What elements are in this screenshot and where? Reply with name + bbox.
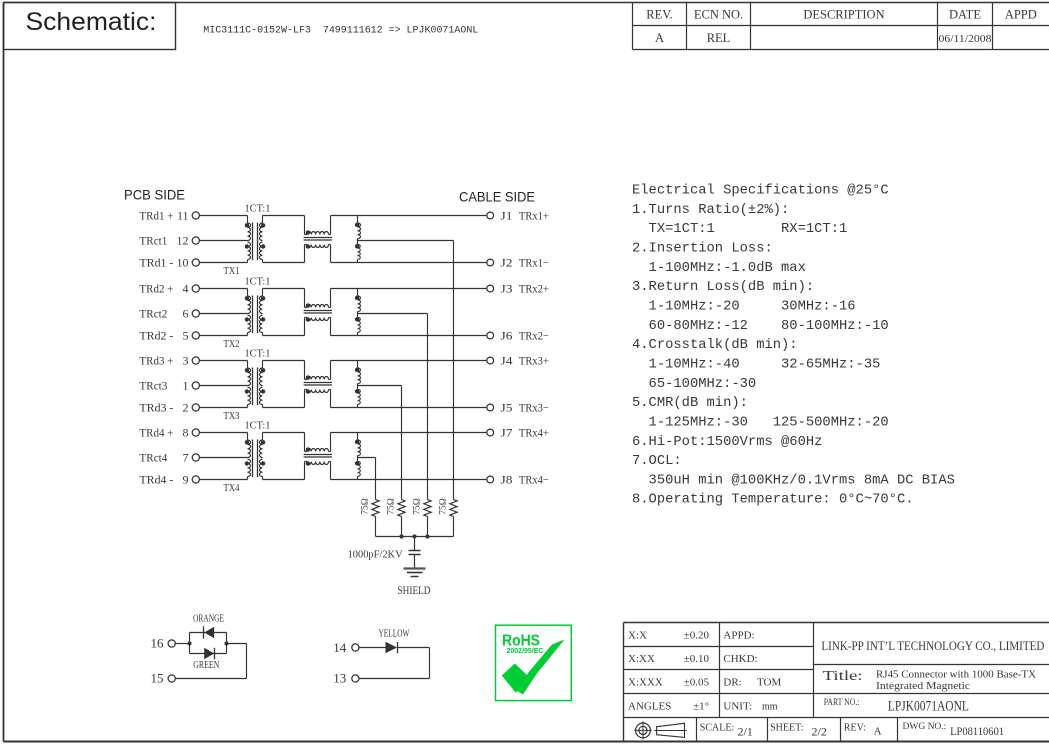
svg-text:TX1: TX1 [224,265,240,277]
svg-text:Title:: Title: [823,668,863,683]
resistor R4 75ohm [361,498,380,536]
svg-text:SHIELD: SHIELD [398,585,431,597]
wire pin 7 to TX4 [199,457,247,459]
svg-text:X:X: X:X [628,630,647,642]
wire center tap L1 to resistor R1 [358,241,454,500]
svg-text:Electrical Specifications @25°: Electrical Specifications @25°C [632,183,889,199]
svg-text:GREEN: GREEN [193,660,219,671]
svg-text:DR:: DR: [723,677,741,689]
cable-side tap winding L2 [355,289,361,336]
svg-text:±0.10: ±0.10 [684,653,710,665]
wire pin 12 to TX1 [199,240,247,242]
svg-text:2/2: 2/2 [812,725,827,739]
pin 3 TRd3+ [139,354,199,368]
pin 8 TRd4+ [139,426,199,440]
transformer TX3 [245,361,266,408]
svg-text:11: 11 [177,209,189,223]
svg-text:LINK-PP INT’L TECHNOLOGY CO.,: LINK-PP INT’L TECHNOLOGY CO., LIMITED [821,638,1044,653]
svg-text:TRd2 +: TRd2 + [139,282,173,296]
svg-text:A: A [655,31,664,45]
svg-text:TRx2+: TRx2+ [519,284,549,296]
svg-text:1-100MHz:-1.0dB max: 1-100MHz:-1.0dB max [632,260,806,276]
svg-text:3: 3 [183,354,189,368]
svg-text:06/11/2008: 06/11/2008 [939,33,993,45]
svg-text:7: 7 [183,451,189,465]
transformer TX4 [245,433,266,480]
svg-text:2: 2 [183,401,189,415]
svg-text:LP08110601: LP08110601 [950,724,1004,738]
svg-text:75Ω: 75Ω [413,498,423,515]
title block texts [628,630,1044,739]
common-mode choke CM1 [304,216,332,263]
svg-text:TRd2 -: TRd2 - [139,329,173,343]
pin 14 [333,640,359,655]
connector pin J5 TRx3- [487,403,549,415]
svg-text:DWG NO.:: DWG NO.: [903,722,947,732]
svg-text:DATE: DATE [949,8,981,22]
resistor R3 75ohm [387,498,406,536]
electrical specifications text [632,183,955,508]
svg-text:75Ω: 75Ω [439,498,449,515]
label GREEN [193,660,219,671]
svg-text:5.CMR(dB min):: 5.CMR(dB min): [632,395,748,411]
svg-text:REV:: REV: [844,723,866,734]
RoHS logo [496,625,572,700]
svg-text:Schematic:: Schematic: [26,8,157,36]
label ORANGE [193,613,224,624]
connector pin J6 TRx2- [487,331,549,343]
wire pin 9 to TX4 [199,479,247,481]
svg-text:TRx4−: TRx4− [519,475,549,487]
LED D1 orange/green bidirectional [175,626,228,659]
pin 9 TRd4- [139,473,199,487]
svg-text:1.Turns Ratio(±2%):: 1.Turns Ratio(±2%): [632,202,789,218]
wire choke CM3 to J5 [331,407,487,409]
svg-text:J6: J6 [501,331,513,343]
wire pin 6 to TX2 [199,313,247,315]
svg-text:J8: J8 [501,475,513,487]
wire TX4 secondary to choke CM4 [263,433,305,480]
wire center tap L2 to resistor R2 [358,314,428,500]
wire center tap L4 to resistor R4 [358,458,376,500]
svg-text:3.Return Loss(dB min):: 3.Return Loss(dB min): [632,279,814,295]
svg-text:16: 16 [151,636,165,651]
pin 1 TRct3 [139,379,199,393]
svg-text:REV.: REV. [646,8,673,22]
svg-text:TRx2−: TRx2− [519,331,549,343]
svg-text:ANGLES: ANGLES [628,701,671,713]
common-mode choke CM3 [304,361,332,408]
svg-text:SHEET:: SHEET: [770,723,803,734]
svg-text:8.Operating Temperature: 0°C~7: 8.Operating Temperature: 0°C~70°C. [632,492,914,508]
connector pin J3 TRx2+ [487,284,549,296]
svg-text:TOM: TOM [757,677,781,689]
svg-text:4: 4 [183,282,189,296]
svg-text:TRd3 +: TRd3 + [139,354,173,368]
svg-text:TX3: TX3 [224,410,240,422]
cable-side tap winding L1 [355,216,361,263]
svg-text:J4: J4 [501,356,513,368]
svg-text:6: 6 [183,307,189,321]
pin 10 TRd1- [139,256,199,270]
connector pin J2 TRx1- [487,258,549,270]
svg-text:TRd3 -: TRd3 - [139,401,173,415]
wire pin 1 to TX3 [199,385,247,387]
svg-text:7.OCL:: 7.OCL: [632,454,682,469]
pin 12 TRct1 [139,234,199,248]
svg-text:1CT:1: 1CT:1 [245,275,271,287]
label TX4 [224,482,240,494]
svg-text:A: A [874,726,882,738]
svg-text:75Ω: 75Ω [361,498,371,515]
svg-text:TRct2: TRct2 [139,307,167,321]
svg-text:TRx1+: TRx1+ [519,211,549,223]
svg-text:X:XX: X:XX [628,653,655,665]
svg-text:PCB SIDE: PCB SIDE [124,187,185,203]
cable-side tap winding L4 [355,433,361,480]
revision table [633,3,1049,50]
connector pin J7 TRx4+ [487,428,549,440]
pin 4 TRd2+ [139,282,199,296]
wire choke CM2 to J6 [331,335,487,337]
svg-text:1-125MHz:-30 125-500MHz:-20: 1-125MHz:-30 125-500MHz:-20 [632,415,889,430]
transformer TX2 label 1CT:1 [245,275,271,287]
svg-text:1000pF/2KV: 1000pF/2KV [348,549,403,561]
svg-text:4.Crosstalk(dB min):: 4.Crosstalk(dB min): [632,337,798,353]
pin 7 TRct4 [139,451,199,465]
svg-text:1-10MHz:-20 30MHz:-16: 1-10MHz:-20 30MHz:-16 [632,300,856,315]
wire center tap L3 to resistor R3 [358,386,402,500]
svg-text:±1°: ±1° [693,701,709,713]
transformer TX4 label 1CT:1 [245,419,271,431]
pin 16 [151,636,176,651]
svg-text:1: 1 [183,379,189,393]
connector pin J4 TRx3+ [487,356,549,368]
svg-text:TRd4 -: TRd4 - [139,473,173,487]
svg-text:X:XXX: X:XXX [628,677,663,689]
wire pin 5 to TX2 [199,335,247,337]
header box Schematic [4,3,176,50]
svg-text:75Ω: 75Ω [387,498,397,515]
svg-text:350uH min @100KHz/0.1Vrms 8mA: 350uH min @100KHz/0.1Vrms 8mA DC BIAS [632,472,955,488]
label TX1 [224,265,240,277]
pin 5 TRd2- [139,329,199,343]
svg-text:J7: J7 [501,428,513,440]
svg-text:TX=1CT:1 RX=1CT:1: TX=1CT:1 RX=1CT:1 [632,222,847,237]
svg-text:RJ45 Connector with 1000 Base-: RJ45 Connector with 1000 Base-TX [876,670,1037,681]
svg-text:13: 13 [333,671,346,686]
svg-text:J1: J1 [501,211,513,223]
transformer TX1 [245,216,266,263]
shield ground symbol [398,569,431,598]
svg-text:APPD: APPD [1005,8,1037,22]
label TX3 [224,410,240,422]
transformer TX2 [245,289,266,336]
wire pin 2 to TX3 [199,407,247,409]
capacitor C1 1000pF/2KV [348,537,421,569]
wire TX2 secondary to choke CM2 [263,289,305,336]
svg-text:TRd4 +: TRd4 + [139,426,173,440]
common-mode choke CM4 [304,433,332,480]
svg-text:J2: J2 [501,258,513,270]
wire choke CM2 to J3 [331,288,487,290]
transformer TX3 label 1CT:1 [245,347,271,359]
wire pin 11 to TX1 [199,215,247,217]
pin 2 TRd3- [139,401,199,415]
svg-text:65-100MHz:-30: 65-100MHz:-30 [632,377,756,392]
wire pin 8 to TX4 [199,432,247,434]
svg-text:PART NO.:: PART NO.: [824,698,860,708]
svg-text:15: 15 [151,671,164,686]
wire choke CM3 to J4 [331,360,487,362]
svg-text:5: 5 [183,329,189,343]
svg-text:TRx4+: TRx4+ [519,428,549,440]
label TX2 [224,338,240,350]
LED D2 yellow [359,642,430,653]
wire LED D1 to pin 15 [175,644,246,679]
label YELLOW [379,628,410,639]
svg-text:8: 8 [183,426,189,440]
wire choke CM1 to J1 [331,215,487,217]
title block table [624,623,1049,742]
svg-text:J5: J5 [501,403,513,415]
resistor R2 75ohm [413,498,432,536]
svg-text:±0.20: ±0.20 [684,630,710,642]
svg-text:MIC3111C-0152W-LF3 7499111612: MIC3111C-0152W-LF3 7499111612 => LPJK007… [203,26,478,37]
svg-text:mm: mm [762,702,778,713]
connector pin J8 TRx4- [487,475,549,487]
svg-text:TRx3−: TRx3− [519,403,549,415]
svg-text:REL: REL [707,31,731,45]
svg-text:TX2: TX2 [224,338,240,350]
resistor R1 75ohm [439,498,458,536]
svg-text:YELLOW: YELLOW [379,628,410,639]
wire choke CM1 to J2 [331,262,487,264]
svg-text:1-10MHz:-40 32-65MHz:-35: 1-10MHz:-40 32-65MHz:-35 [632,358,880,373]
svg-text:DESCRIPTION: DESCRIPTION [803,8,884,22]
pin 11 TRd1+ [139,209,199,223]
svg-text:TRx3+: TRx3+ [519,356,549,368]
label PCB SIDE [124,187,185,203]
wire TX1 secondary to choke CM1 [263,216,305,263]
svg-text:60-80MHz:-12 80-100MHz:-10: 60-80MHz:-12 80-100MHz:-10 [632,319,889,334]
common-mode choke CM2 [304,289,332,336]
wire TX3 secondary to choke CM3 [263,361,305,408]
svg-text:1CT:1: 1CT:1 [245,202,271,214]
svg-text:2.Insertion Loss:: 2.Insertion Loss: [632,241,773,257]
svg-text:TRd1 +: TRd1 + [139,209,173,223]
svg-text:2002/95/EC: 2002/95/EC [507,646,544,655]
wire pin 4 to TX2 [199,288,247,290]
wire choke CM4 to J7 [331,432,487,434]
first-angle projection symbol [634,721,687,739]
svg-text:6.Hi-Pot:1500Vrms @60Hz: 6.Hi-Pot:1500Vrms @60Hz [632,434,822,450]
svg-text:TX4: TX4 [224,482,240,494]
pin 13 [333,671,359,686]
wire pin 3 to TX3 [199,360,247,362]
wire choke CM4 to J8 [331,479,487,481]
svg-text:APPD:: APPD: [723,630,754,642]
ground bus node line [376,534,454,538]
svg-text:10: 10 [177,256,189,270]
cable-side tap winding L3 [355,361,361,408]
svg-text:TRct1: TRct1 [139,234,167,248]
svg-text:2/1: 2/1 [738,725,753,739]
svg-text:1CT:1: 1CT:1 [245,419,271,431]
svg-text:ECN NO.: ECN NO. [694,8,743,22]
svg-text:SCALE:: SCALE: [700,723,734,734]
svg-text:9: 9 [183,473,189,487]
svg-text:12: 12 [177,234,189,248]
svg-text:UNIT:: UNIT: [723,701,752,713]
svg-text:TRct4: TRct4 [139,451,167,465]
svg-text:CABLE SIDE: CABLE SIDE [459,189,535,205]
svg-text:1CT:1: 1CT:1 [245,347,271,359]
svg-text:TRct3: TRct3 [139,379,167,393]
pin 6 TRct2 [139,307,199,321]
svg-text:TRd1 -: TRd1 - [139,256,173,270]
connector pin J1 TRx1+ [487,211,549,223]
svg-text:J3: J3 [501,284,513,296]
header part number text [203,26,478,37]
wire pin 10 to TX1 [199,262,247,264]
svg-text:LPJK0071AONL: LPJK0071AONL [888,699,969,715]
svg-text:ORANGE: ORANGE [193,613,224,624]
wire LED D2 to pin 13 [359,648,430,679]
transformer TX1 label 1CT:1 [245,202,271,214]
svg-text:±0.05: ±0.05 [684,677,710,689]
svg-text:TRx1−: TRx1− [519,258,549,270]
pin 15 [151,671,176,686]
svg-text:CHKD:: CHKD: [723,653,757,665]
svg-text:Integrated Magnetic: Integrated Magnetic [876,681,971,692]
label CABLE SIDE [459,189,535,205]
svg-text:14: 14 [333,640,347,655]
